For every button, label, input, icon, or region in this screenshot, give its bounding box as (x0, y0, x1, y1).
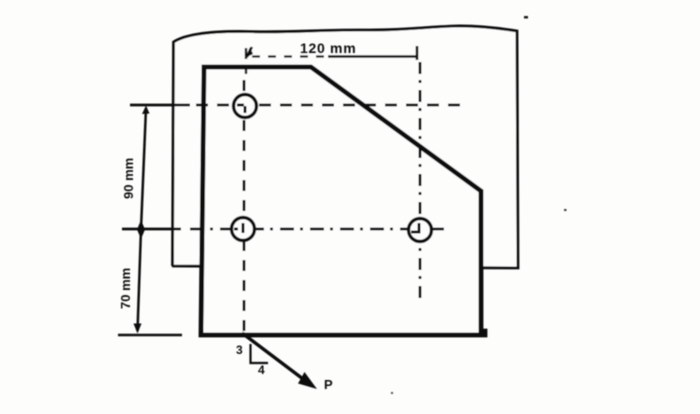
bracket plate outline (201, 67, 485, 335)
centerline row1 (top hole row, y=105) (130, 104, 190, 107)
bottom arrow (down) (134, 324, 142, 334)
svg-text:4: 4 (258, 363, 265, 377)
bolt hole H3 (middle right) (409, 219, 432, 242)
top arrow (up) (142, 106, 150, 115)
wall (background support plate) (172, 26, 518, 268)
middle tick (double arrow) (137, 220, 145, 239)
left vertical dimension line (138, 108, 147, 331)
bottom extension line (118, 334, 182, 337)
centerline row2 (middle hole row, y=229) (122, 228, 181, 231)
dimension line 120mm (top) (252, 55, 330, 57)
svg-text:P: P (324, 377, 333, 392)
svg-text:90 mm: 90 mm (121, 158, 136, 199)
slope triangle legs (251, 344, 269, 363)
bolt hole H2 (middle left) (232, 218, 255, 241)
H3 inner marks (411, 223, 419, 232)
bolt hole H1 (top left) (234, 95, 257, 118)
svg-text:3: 3 (236, 343, 243, 357)
force arrow P (242, 333, 305, 381)
svg-text:70 mm: 70 mm (118, 268, 133, 309)
centerline col2 (x=420) (419, 62, 422, 302)
H1 inner marks (237, 105, 245, 113)
svg-text:120 mm: 120 mm (300, 40, 356, 56)
right tick of 120mm (416, 46, 419, 60)
left tick of 120mm (247, 47, 252, 57)
centerline col1 (x=244) (245, 48, 247, 74)
stray scan dots (524, 16, 528, 19)
H2 inner marks (234, 223, 243, 233)
